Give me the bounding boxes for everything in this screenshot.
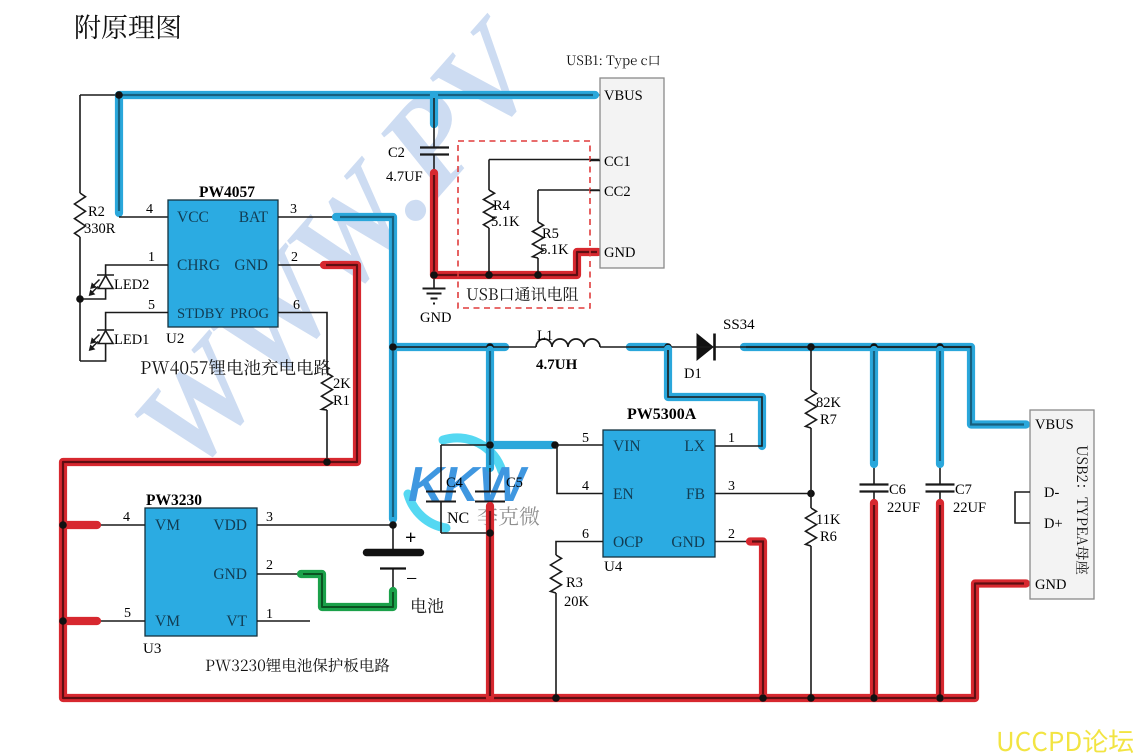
node: LED2 junction on rail — [76, 295, 84, 303]
node: R7 branch on main line — [807, 343, 815, 351]
svg-text:5: 5 — [148, 298, 155, 313]
svg-text:GND: GND — [604, 245, 635, 261]
wire: blue segment left of L1 — [394, 343, 505, 351]
LED D LED2 — [80, 275, 114, 299]
chip U3 PW3230 body — [145, 508, 257, 636]
svg-text:R5: R5 — [542, 226, 559, 242]
resistor R7 — [810, 347, 812, 494]
wire: VIN branch blue vertical x=490 — [486, 350, 494, 468]
svg-text:3: 3 — [290, 202, 297, 217]
node: R1 bottom junction — [323, 458, 331, 466]
resistor R6 — [810, 494, 812, 699]
svg-text:LED1: LED1 — [114, 332, 149, 348]
wire: C2 branch blue stub — [430, 95, 438, 124]
wire: VIN node blue horizontal — [490, 441, 552, 449]
svg-text:1: 1 — [148, 250, 155, 265]
capacitor C7 — [939, 347, 941, 484]
caption PW3230锂电池保护板电路 — [206, 658, 390, 672]
svg-text:C5: C5 — [506, 475, 523, 491]
node: battery plus junction — [389, 521, 397, 529]
wire: OCP to R3 — [556, 542, 603, 699]
node: VIN branch on main line — [486, 343, 494, 351]
svg-text:330R: 330R — [84, 221, 116, 237]
pin numbers U3 — [123, 510, 273, 622]
svg-text:+: + — [405, 527, 416, 549]
svg-text:5.1K: 5.1K — [491, 214, 520, 230]
svg-text:5.1K: 5.1K — [540, 242, 569, 258]
svg-text:CHRG: CHRG — [177, 257, 220, 274]
svg-text:6: 6 — [582, 527, 589, 542]
svg-text:82K: 82K — [816, 395, 842, 411]
svg-text:U2: U2 — [166, 331, 184, 347]
resistor R1 — [322, 373, 333, 410]
caption 电池 — [412, 598, 443, 614]
box: USB comm resistors dashed — [458, 141, 590, 308]
node: C5 top / VIN node — [486, 441, 494, 449]
wire: blue from D1 to USB2 VBUS — [744, 347, 1026, 425]
svg-text:22UF: 22UF — [953, 500, 986, 516]
resistor R3 — [551, 555, 562, 593]
svg-text:GND: GND — [420, 310, 451, 326]
capacitor C5 — [489, 468, 491, 491]
svg-text:VIN: VIN — [613, 438, 641, 455]
LED D LED1 — [80, 330, 114, 361]
svg-text:OCP: OCP — [613, 534, 643, 551]
svg-text:GND: GND — [234, 257, 268, 274]
svg-text:U3: U3 — [143, 641, 161, 657]
svg-text:VDD: VDD — [213, 517, 247, 534]
node: battery branch on main line — [389, 343, 397, 351]
wire: STDBY pin5 to LED1 — [106, 313, 168, 331]
watermark KKW logo — [408, 438, 529, 528]
svg-text:R3: R3 — [566, 575, 583, 591]
svg-text:EN: EN — [613, 486, 634, 503]
svg-text:4: 4 — [146, 202, 153, 217]
svg-text:4.7UF: 4.7UF — [386, 169, 423, 185]
svg-text:2: 2 — [266, 558, 273, 573]
capacitor C6 — [873, 347, 875, 484]
capacitor C4 block (NC) — [441, 445, 490, 533]
watermark WWW.PV — [106, 0, 574, 497]
svg-text:R4: R4 — [493, 198, 511, 214]
svg-text:LX: LX — [684, 438, 705, 455]
svg-text:PROG: PROG — [230, 306, 269, 322]
svg-text:C4: C4 — [446, 475, 464, 491]
wire: top-left thin black rail (x=80) with R2 — [80, 95, 119, 361]
wire: C2 to ground red — [433, 155, 435, 276]
resistor R2 — [75, 193, 86, 237]
capacitor C2 — [420, 148, 449, 155]
svg-text:1: 1 — [266, 607, 273, 622]
svg-text:GND: GND — [671, 534, 705, 551]
svg-text:R2: R2 — [88, 204, 105, 220]
svg-text:2: 2 — [728, 527, 735, 542]
wire: EN tie to VIN node — [557, 445, 603, 494]
svg-text:VBUS: VBUS — [604, 88, 643, 104]
wire: C5 red down to bottom rail — [489, 502, 491, 699]
wire: VDD pin3 to battery plus — [257, 525, 393, 549]
pin numbers U2 — [146, 202, 300, 313]
node: junction top-left — [115, 91, 123, 99]
node: VM pin5 rail junction — [59, 617, 67, 625]
svg-text:−: − — [406, 568, 417, 590]
ground GND (C2) — [423, 275, 446, 304]
svg-text:CC1: CC1 — [604, 154, 631, 170]
svg-text:1: 1 — [728, 431, 735, 446]
wire: CC1/CC2 stubs — [590, 161, 600, 191]
svg-text:C7: C7 — [955, 482, 972, 498]
wire: U3 GND pin2 + green wire — [257, 569, 393, 607]
svg-text:D+: D+ — [1044, 516, 1063, 532]
diode D1 SS34 — [697, 334, 713, 360]
node: VM pin4 rail junction — [59, 521, 67, 529]
resistor R5 — [538, 190, 600, 275]
node: NC block bottom junction — [486, 529, 494, 537]
svg-text:GND: GND — [1035, 577, 1066, 593]
wire: main top line black core — [119, 94, 600, 96]
svg-text:PW5300A: PW5300A — [627, 406, 697, 423]
caption UCCPD论坛 — [999, 729, 1134, 753]
svg-text:PW4057: PW4057 — [199, 184, 255, 201]
svg-text:6: 6 — [293, 298, 300, 313]
node: R5 ground junction — [534, 271, 542, 279]
svg-text:C6: C6 — [889, 482, 906, 498]
node: C6 branch on main line — [870, 343, 878, 351]
svg-text:BAT: BAT — [239, 209, 269, 226]
svg-text:4.7UH: 4.7UH — [536, 357, 578, 373]
node: junction C2 top — [430, 91, 438, 99]
svg-text:R6: R6 — [820, 529, 837, 545]
watermark 李克微 — [478, 506, 540, 525]
node: C7 branch on main line — [936, 343, 944, 351]
svg-text:4: 4 — [582, 479, 589, 494]
wire: main output line y=347 black core — [393, 346, 971, 348]
wire: pin4 VCC lead — [119, 216, 168, 218]
wire: red ground bus of USB resistors — [434, 252, 600, 275]
svg-text:C2: C2 — [388, 145, 405, 161]
resistor R4 — [489, 160, 600, 276]
node: EN tie junction — [551, 441, 559, 449]
svg-text:5: 5 — [582, 431, 589, 446]
svg-text:VM: VM — [155, 517, 180, 534]
svg-text:11K: 11K — [816, 512, 841, 528]
svg-text:22UF: 22UF — [887, 500, 920, 516]
svg-text:D-: D- — [1044, 485, 1059, 501]
svg-text:2K: 2K — [333, 376, 351, 392]
node: R4 ground junction — [485, 271, 493, 279]
svg-text:CC2: CC2 — [604, 184, 631, 200]
title 附原理图 — [76, 14, 180, 39]
node: C2 ground junction — [430, 271, 438, 279]
connector USB1 box — [600, 78, 664, 268]
caption PW4057锂电池充电电路 — [141, 359, 331, 375]
wire: CHRG pin1 to LED2 — [106, 265, 168, 275]
wire: blue segment right of L1 — [630, 343, 666, 351]
connector USB2 box — [1030, 410, 1094, 599]
svg-text:SS34: SS34 — [723, 317, 755, 333]
wire: PW5300A GND pin red — [715, 541, 757, 543]
svg-text:LED2: LED2 — [114, 277, 149, 293]
node: R3 bottom rail junction — [552, 694, 560, 702]
svg-text:L1: L1 — [537, 328, 553, 344]
label USB2 TYPEA — [1076, 446, 1089, 575]
node: FB divider junction — [807, 490, 815, 498]
svg-text:5: 5 — [124, 606, 131, 621]
wire: VIN black lead — [552, 444, 603, 446]
node: LX branch on main line — [664, 343, 672, 351]
pin numbers U4 — [582, 431, 735, 542]
wire: PROG pin6 to R1 — [278, 313, 327, 463]
svg-text:20K: 20K — [564, 594, 590, 610]
wire: U3 pin4 stub — [63, 524, 145, 526]
svg-text:R1: R1 — [333, 393, 350, 409]
svg-text:FB: FB — [686, 486, 705, 503]
node: R6 bottom rail junction — [807, 694, 815, 702]
svg-text:U4: U4 — [604, 559, 623, 575]
chip U4 PW5300A body — [603, 430, 715, 557]
wire: LX lead black — [668, 349, 762, 446]
svg-text:VCC: VCC — [177, 209, 209, 226]
wire: VBUS blue top line — [119, 95, 595, 213]
wire: BAT pin3 stub — [278, 216, 340, 218]
svg-text:NC: NC — [447, 510, 469, 527]
wire: D-/D+ short bracket — [1015, 492, 1030, 523]
svg-text:4: 4 — [123, 510, 130, 525]
node: C6 bottom rail junction — [870, 694, 878, 702]
node: U4 GND bottom rail junction — [759, 694, 767, 702]
wire: U3 pin5 stub — [63, 620, 145, 622]
battery BT1 — [367, 549, 421, 557]
svg-text:PW3230: PW3230 — [146, 492, 202, 509]
svg-text:3: 3 — [728, 479, 735, 494]
svg-text:GND: GND — [213, 566, 247, 583]
svg-text:R7: R7 — [820, 412, 837, 428]
svg-text:STDBY: STDBY — [177, 306, 225, 322]
svg-text:3: 3 — [266, 510, 273, 525]
inductor L1 — [536, 339, 600, 347]
wire: VT pin1 — [257, 620, 310, 622]
wire: FB lead — [715, 493, 811, 495]
node: C7 bottom rail junction — [936, 694, 944, 702]
wire: BAT blue to battery plus — [336, 217, 393, 519]
svg-text:VM: VM — [155, 613, 180, 630]
svg-text:VT: VT — [226, 613, 247, 630]
svg-text:D1: D1 — [684, 366, 702, 382]
caption USB口通讯电阻 — [467, 287, 578, 302]
svg-text:2: 2 — [291, 250, 298, 265]
wire: GND pin2 red (long ground run) — [278, 264, 330, 266]
svg-text:VBUS: VBUS — [1035, 417, 1074, 433]
op-amp U2 PW4057 chip body — [168, 200, 278, 327]
